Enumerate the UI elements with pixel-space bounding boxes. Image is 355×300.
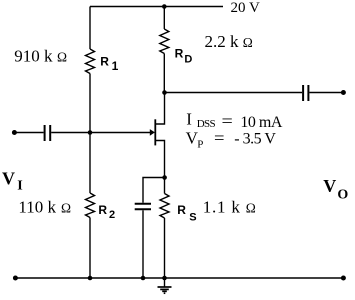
wire R1 bottom to R2 top (through gate node) <box>89 74 91 194</box>
svg-text:S: S <box>189 212 196 224</box>
wire RD bottom to drain node <box>163 54 165 93</box>
svg-text:DSS: DSS <box>197 118 216 130</box>
node supply junction <box>162 4 167 9</box>
svg-text:I: I <box>17 178 22 193</box>
label V_I input <box>2 168 23 193</box>
svg-text:V: V <box>2 168 15 188</box>
svg-text:I: I <box>186 110 192 129</box>
node R2 bottom junction <box>88 276 93 281</box>
node source junction <box>162 175 167 180</box>
node gate junction <box>88 130 93 135</box>
svg-text:O: O <box>337 187 348 202</box>
wire R1 top lead <box>89 7 91 50</box>
svg-text:V: V <box>323 176 336 196</box>
input terminal dot <box>12 130 17 135</box>
bottom left terminal dot <box>13 276 18 281</box>
svg-text:2.2 kΩ: 2.2 kΩ <box>205 32 253 51</box>
text VP = -3.5 V <box>186 129 277 151</box>
svg-text:1.1 kΩ: 1.1 kΩ <box>203 197 257 216</box>
svg-text:=: = <box>214 129 225 148</box>
label V_O output <box>323 176 348 202</box>
wire JFET drain lead <box>155 93 164 125</box>
bottom right terminal dot <box>341 276 346 281</box>
svg-text:P: P <box>197 138 203 150</box>
transistor Q1 gate arrow <box>150 129 155 136</box>
resistor RD <box>160 29 169 54</box>
svg-text:R: R <box>100 55 109 69</box>
resistor R2 <box>86 193 95 218</box>
text IDSS = 10 mA <box>186 110 283 131</box>
node ground junction <box>162 276 167 281</box>
wire CS bottom lead <box>142 210 144 278</box>
wire source node to CS branch <box>143 178 165 203</box>
transistor Q1 JFET channel bar <box>154 119 156 145</box>
capacitor C1 input coupling <box>45 125 51 141</box>
svg-text:110 kΩ: 110 kΩ <box>18 197 71 216</box>
svg-text:- 3.5 V: - 3.5 V <box>234 130 276 147</box>
svg-text:D: D <box>184 54 192 66</box>
wire input to C1 <box>14 132 43 134</box>
ground symbol <box>158 287 172 293</box>
label R1 <box>100 55 118 74</box>
node CS bottom junction <box>141 276 146 281</box>
wire output drain node to C2 <box>165 92 303 94</box>
label RS <box>177 203 196 224</box>
svg-text:2: 2 <box>109 209 115 221</box>
wire C1 to gate <box>51 132 151 134</box>
svg-text:910 kΩ: 910 kΩ <box>14 46 67 65</box>
label R2 <box>98 203 115 221</box>
capacitor C2 output coupling <box>303 85 308 101</box>
capacitor CS bypass <box>135 204 151 210</box>
svg-text:10 mA: 10 mA <box>240 114 282 131</box>
node drain junction <box>162 90 167 95</box>
wire C2 to output terminal <box>309 92 343 94</box>
wire R2 bottom lead <box>89 218 91 279</box>
resistor RS <box>160 194 169 219</box>
wire bottom rail <box>15 277 343 279</box>
svg-text:20 V: 20 V <box>231 0 260 16</box>
resistor R1 <box>86 49 95 74</box>
output terminal dot <box>341 90 346 95</box>
svg-text:1: 1 <box>112 59 119 73</box>
svg-text:R: R <box>98 203 107 217</box>
wire top supply rail <box>90 6 223 8</box>
svg-text:R: R <box>175 46 184 60</box>
wire JFET source lead <box>155 141 164 178</box>
wire RS bottom lead <box>164 218 166 278</box>
svg-text:R: R <box>177 203 186 217</box>
wire RD top lead <box>163 7 165 30</box>
label RD <box>175 46 193 65</box>
wire source node to RS <box>164 178 166 194</box>
ground stub <box>164 278 166 287</box>
